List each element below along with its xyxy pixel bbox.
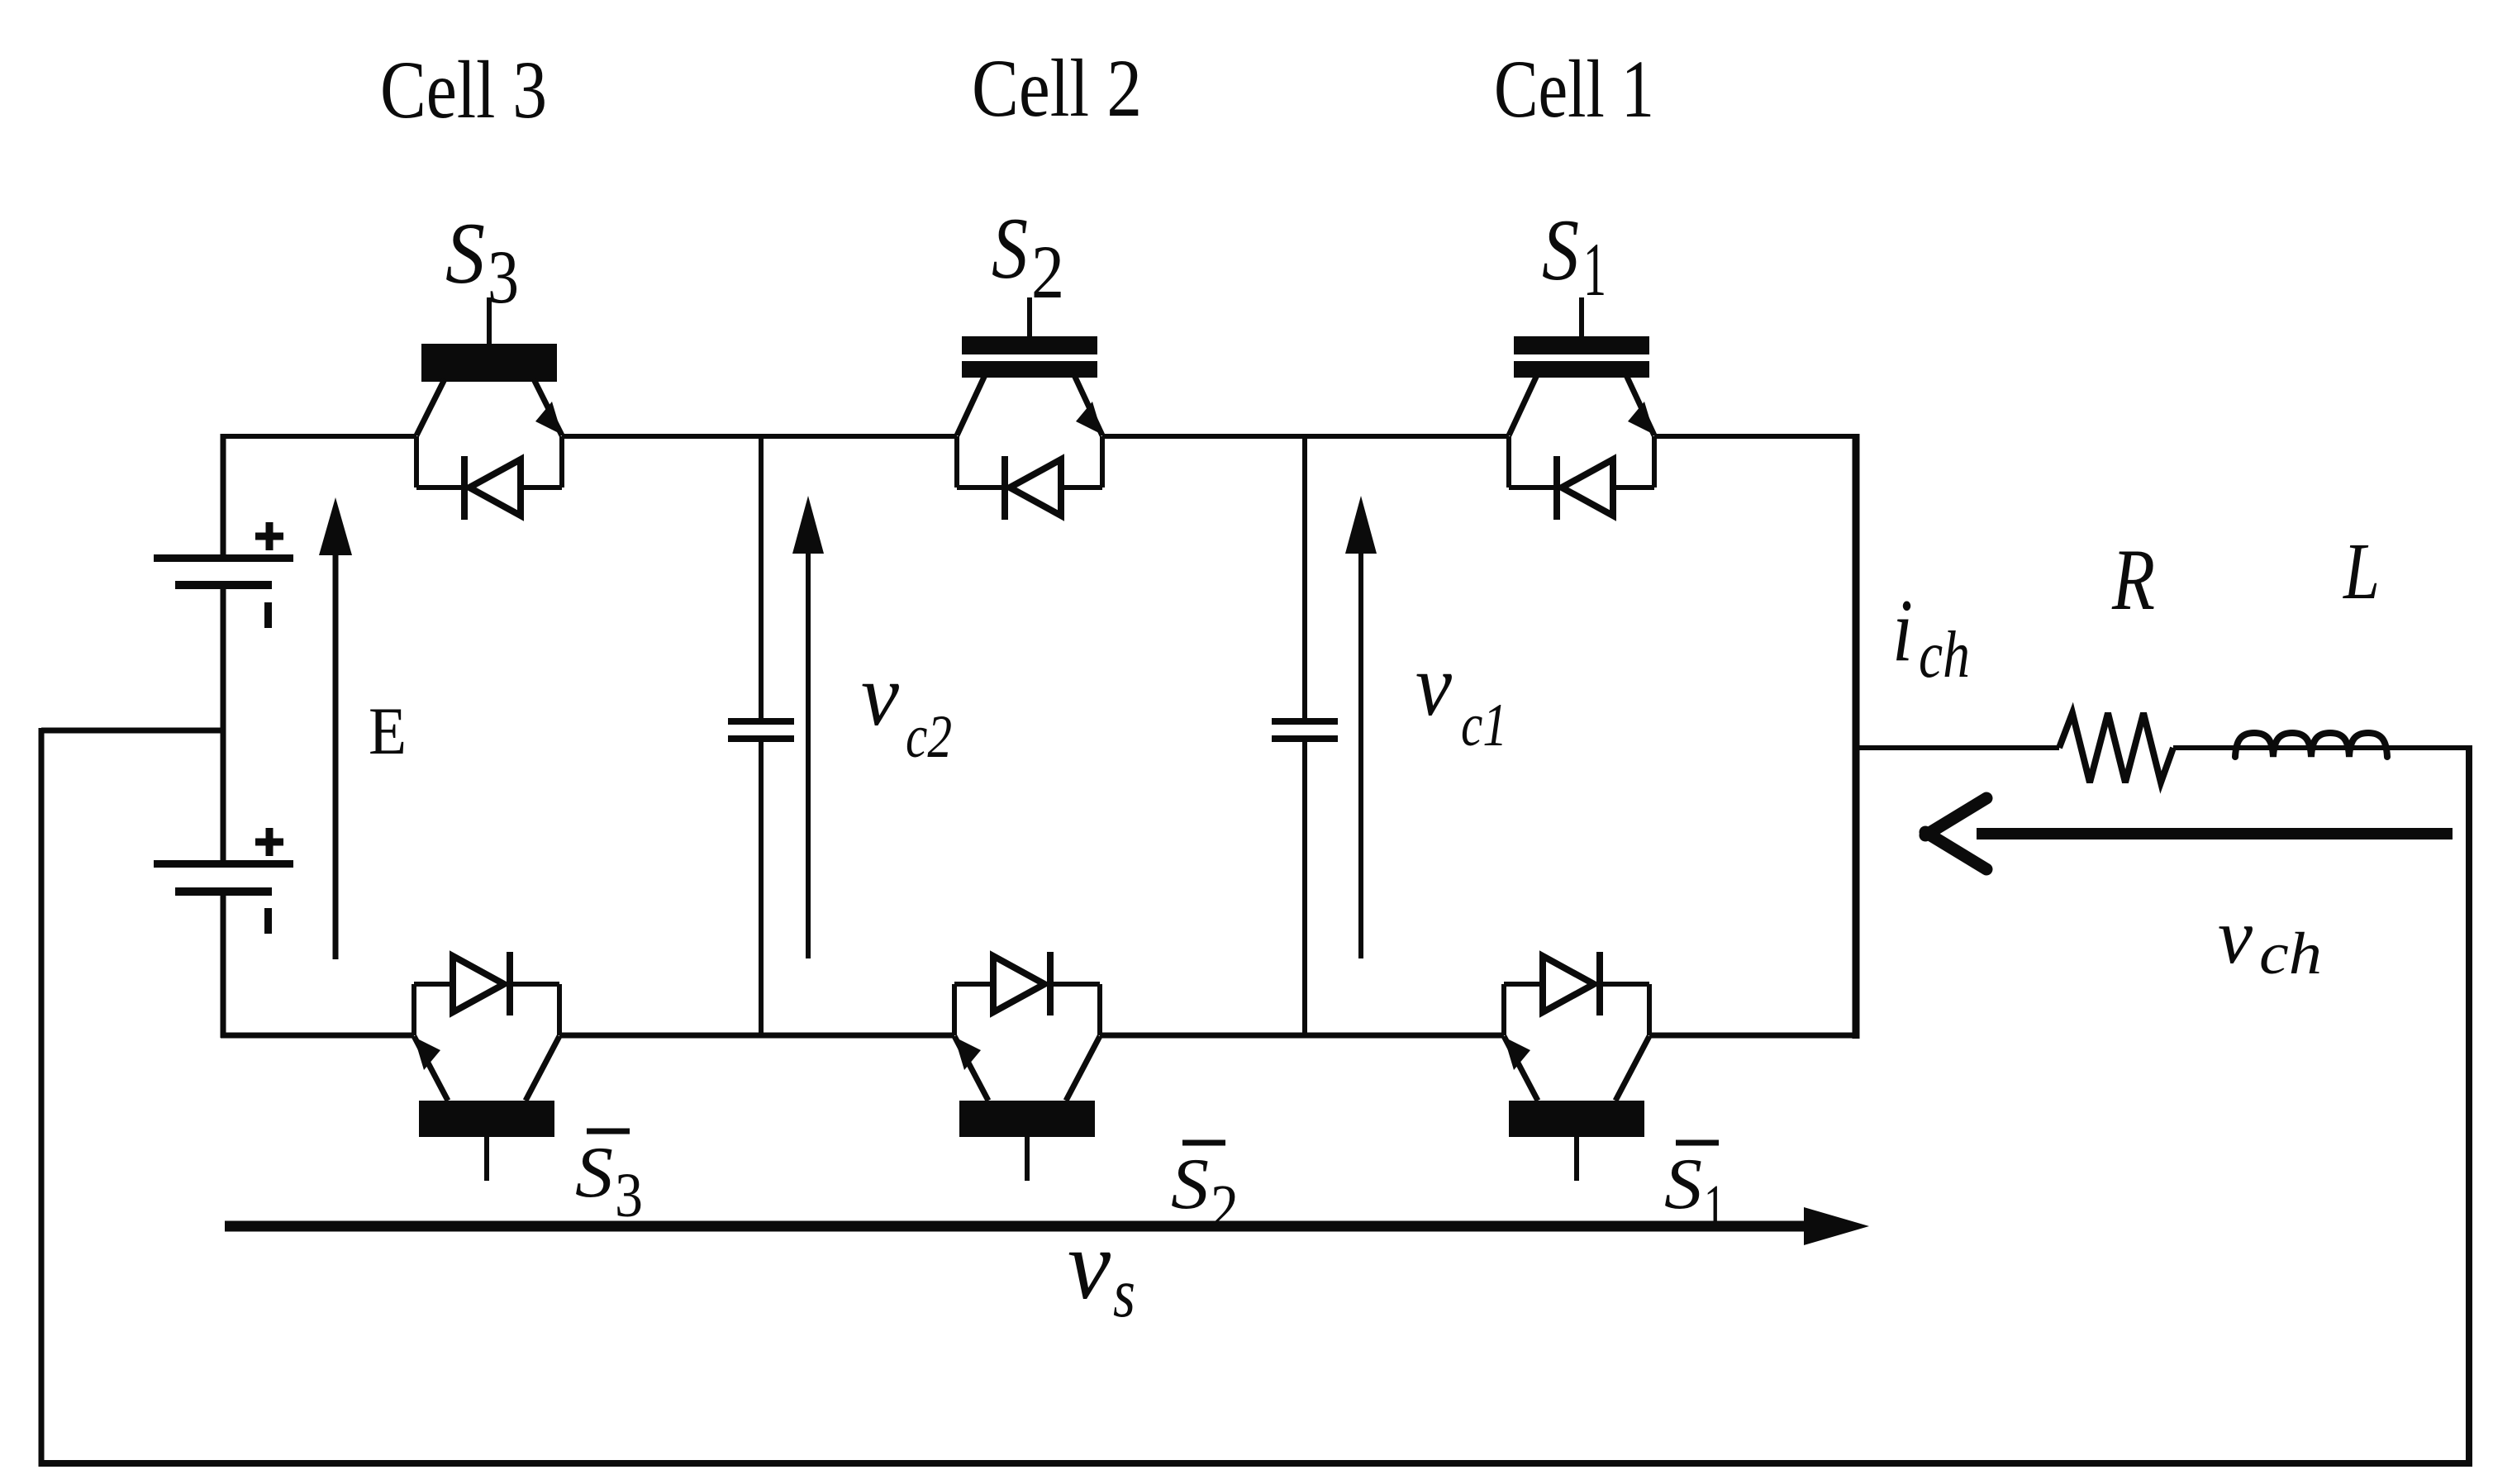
S2 diode cathode bar xyxy=(1001,456,1008,520)
wire: battery top lead xyxy=(221,434,226,558)
resistor R xyxy=(2059,713,2173,782)
S1bar diode loop right stub xyxy=(1647,984,1652,1035)
svg-text:2: 2 xyxy=(1031,230,1064,314)
S2bar emitter arrow xyxy=(954,1037,981,1070)
battery cell 1 plus sign xyxy=(255,533,283,540)
svg-text:v: v xyxy=(861,647,899,744)
wire: bottom rail, S3bar to S2bar xyxy=(559,1033,954,1039)
S2bar diode cathode wire xyxy=(1051,982,1100,987)
S2 collector leg xyxy=(957,375,985,435)
S2bar diode anode wire xyxy=(954,982,991,987)
C1 bottom plate xyxy=(1272,735,1338,742)
svg-text:S: S xyxy=(1171,1144,1209,1225)
S2bar gate bar xyxy=(959,1101,1095,1137)
S1bar gate lead xyxy=(1574,1137,1579,1181)
S2bar collector leg xyxy=(1066,1036,1100,1101)
arrow: v_c1 voltage reference xyxy=(1358,545,1363,958)
svg-text:ch: ch xyxy=(1919,619,1970,692)
S2bar diode triangle xyxy=(993,956,1044,1012)
battery cell 1 positive plate xyxy=(154,554,293,562)
S1 diode anode wire xyxy=(1611,485,1654,490)
S2 emitter leg xyxy=(1074,375,1102,435)
S1 diode triangle xyxy=(1562,459,1613,516)
svg-text:Cell 2: Cell 2 xyxy=(972,42,1142,134)
svg-text:Cell 3: Cell 3 xyxy=(380,44,547,136)
S3 gate lead xyxy=(487,297,492,344)
svg-text:S: S xyxy=(575,1133,613,1213)
arrow: v_c2 voltage reference xyxy=(806,545,811,958)
S2bar diode loop right stub xyxy=(1097,984,1102,1035)
wire: C2 top lead xyxy=(759,436,764,718)
S3 emitter leg xyxy=(534,379,562,435)
S1 emitter arrow xyxy=(1628,402,1654,435)
arrow: source voltage E direction xyxy=(333,545,339,959)
S1 collector leg xyxy=(1509,375,1537,435)
battery cell 1 minus tick xyxy=(264,602,272,628)
svg-text:S: S xyxy=(992,200,1028,297)
battery cell 2 plus sign xyxy=(255,839,283,846)
S1 gate lead xyxy=(1579,297,1584,344)
S3bar diode loop right stub xyxy=(557,984,562,1035)
S3bar gate bar xyxy=(419,1101,554,1137)
S2bar gate lead xyxy=(1025,1137,1030,1181)
S1 diode cathode wire xyxy=(1509,485,1556,490)
S2 gate bar lower xyxy=(962,361,1097,378)
wire: converter right edge vertical xyxy=(1853,434,1860,1039)
capacitor C1 xyxy=(1272,436,1338,1035)
S1 gate bar lower xyxy=(1514,361,1649,378)
label S3bar (S bar 3) xyxy=(587,1129,630,1134)
battery cell 2 minus tick xyxy=(264,908,272,934)
arrow: v_ch pointing left xyxy=(1977,828,2453,840)
svg-text:v: v xyxy=(1415,637,1452,735)
S2bar emitter leg xyxy=(954,1036,988,1101)
S1bar collector leg xyxy=(1615,1036,1649,1101)
wire: C1 top lead xyxy=(1302,436,1307,718)
S2 diode triangle xyxy=(1010,459,1061,516)
S2 gate bar upper xyxy=(962,336,1097,354)
svg-text:3: 3 xyxy=(488,235,519,319)
wire: top rail, S2 to S1 xyxy=(1102,434,1509,439)
transistor S2bar (IGBT with antiparallel diode) xyxy=(954,952,1100,1181)
S1 diode loop right stub xyxy=(1652,436,1657,488)
label S2bar (S bar 2) xyxy=(1182,1140,1225,1146)
S3bar gate lead xyxy=(484,1137,489,1181)
transistor S3 (IGBT with antiparallel diode) xyxy=(416,297,562,520)
S3bar diode cathode bar xyxy=(507,952,513,1015)
wire: battery midpoint tap xyxy=(41,728,223,734)
S1 gate bar upper xyxy=(1514,336,1649,354)
S3 diode anode wire xyxy=(519,485,562,490)
S3bar diode cathode wire xyxy=(511,982,559,987)
S3 emitter arrow xyxy=(535,402,562,435)
wire: bottom rail, S1bar to right edge xyxy=(1649,1033,1856,1039)
inductor L xyxy=(2235,733,2387,757)
S3 diode cathode bar xyxy=(461,456,468,520)
svg-text:c2: c2 xyxy=(906,703,952,771)
battery cell 1 negative plate xyxy=(175,581,272,589)
svg-text:S: S xyxy=(1542,202,1579,298)
S1bar diode anode wire xyxy=(1504,982,1540,987)
S2 diode anode wire xyxy=(1059,485,1102,490)
svg-text:1: 1 xyxy=(1583,227,1606,312)
svg-text:E: E xyxy=(369,693,407,768)
S3bar diode loop left stub xyxy=(412,984,416,1035)
S1bar diode loop left stub xyxy=(1501,984,1506,1035)
S2 emitter arrow xyxy=(1076,402,1102,435)
wire: battery bottom lead xyxy=(221,896,226,1038)
battery cell 2 negative plate xyxy=(175,887,272,896)
wire: bottom rail, S2bar to S1bar xyxy=(1100,1033,1504,1039)
capacitor C2 xyxy=(728,436,794,1035)
C1 top plate xyxy=(1272,718,1338,725)
S2bar diode cathode bar xyxy=(1047,952,1054,1015)
S3 gate bar xyxy=(421,344,557,382)
S1bar emitter leg xyxy=(1504,1036,1538,1101)
wire: top rail, battery to S3 xyxy=(221,434,416,439)
transistor S1bar (IGBT with antiparallel diode) xyxy=(1504,952,1649,1181)
S3 collector leg xyxy=(416,379,445,435)
S2 gate lead xyxy=(1027,297,1032,344)
transistor S2 (IGBT with antiparallel diode) xyxy=(957,297,1102,520)
S1 emitter leg xyxy=(1626,375,1654,435)
svg-text:3: 3 xyxy=(615,1161,643,1230)
S1bar diode cathode bar xyxy=(1596,952,1603,1015)
svg-text:ch: ch xyxy=(2259,920,2322,987)
svg-text:L: L xyxy=(2342,527,2380,616)
S3 diode cathode wire xyxy=(416,485,464,490)
S3 diode loop left stub xyxy=(414,436,419,488)
S3 diode loop right stub xyxy=(559,436,564,488)
S1bar emitter arrow xyxy=(1504,1037,1530,1070)
S1bar gate bar xyxy=(1509,1101,1644,1137)
svg-text:S: S xyxy=(1664,1144,1702,1225)
S3 diode triangle xyxy=(469,459,521,516)
wire: right outer vertical xyxy=(2466,748,2472,1463)
wire: left outer vertical xyxy=(39,728,45,1467)
S3bar diode anode wire xyxy=(414,982,450,987)
S3bar collector leg xyxy=(526,1036,559,1101)
wire: bottom outer xyxy=(39,1460,2472,1467)
label S1bar (S bar 1) xyxy=(1676,1140,1719,1146)
svg-text:R: R xyxy=(2111,531,2155,628)
svg-text:v: v xyxy=(1068,1210,1111,1320)
wire: top rail, S1 to right edge xyxy=(1654,434,1856,439)
S1bar diode triangle xyxy=(1543,956,1594,1012)
wire: C2 bottom lead xyxy=(759,742,764,1035)
svg-text:Cell 1: Cell 1 xyxy=(1494,43,1654,135)
S3bar emitter arrow xyxy=(414,1037,440,1070)
wire: output node to resistor xyxy=(1856,745,2059,750)
S1 diode cathode bar xyxy=(1553,456,1560,520)
svg-text:i: i xyxy=(1892,582,1913,680)
S2 diode cathode wire xyxy=(957,485,1004,490)
battery cell 2 positive plate xyxy=(154,860,293,868)
arrow: output voltage v_s xyxy=(225,1221,1810,1232)
svg-text:c1: c1 xyxy=(1461,692,1507,759)
C2 bottom plate xyxy=(728,735,794,742)
wire: resistor to right outer corner xyxy=(2173,745,2472,750)
S2 diode loop left stub xyxy=(954,436,959,488)
wire: C1 bottom lead xyxy=(1302,742,1307,1035)
wire: bottom rail, battery to S3bar xyxy=(221,1033,414,1039)
transistor S3bar (IGBT with antiparallel diode) xyxy=(414,952,559,1181)
S3bar emitter leg xyxy=(414,1036,448,1101)
transistor S1 (IGBT with antiparallel diode) xyxy=(1509,297,1654,520)
C2 top plate xyxy=(728,718,794,725)
wire: top rail, S3 to S2 xyxy=(562,434,957,439)
S1 diode loop left stub xyxy=(1506,436,1511,488)
S1bar diode cathode wire xyxy=(1601,982,1649,987)
wire: battery middle lead xyxy=(221,589,226,862)
svg-text:S: S xyxy=(445,205,485,302)
S2 diode loop right stub xyxy=(1100,436,1105,488)
S2bar diode loop left stub xyxy=(952,984,957,1035)
svg-text:s: s xyxy=(1113,1254,1135,1332)
svg-text:v: v xyxy=(2218,892,2253,980)
S3bar diode triangle xyxy=(453,956,504,1012)
